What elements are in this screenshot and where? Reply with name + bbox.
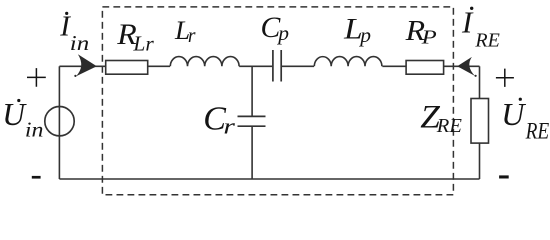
wire bottom (59, 178, 479, 180)
label U_RE (501, 96, 549, 143)
label L_p (343, 13, 371, 47)
minus sign left (32, 176, 41, 179)
svg-text:P: P (420, 27, 436, 48)
wire left vertical (58, 66, 60, 179)
wire R_Lr to L_r (148, 65, 170, 67)
label L_r (174, 15, 196, 47)
current arrow I_RE (457, 57, 477, 77)
wire right vertical top (479, 66, 481, 98)
wire L_p to R_P (382, 65, 406, 67)
svg-text:r: r (188, 26, 196, 47)
wire C_r to bottom (251, 127, 253, 179)
inductor L_r (170, 57, 239, 67)
svg-text:r: r (223, 114, 235, 139)
label C_r (203, 100, 235, 138)
plus sign left (27, 68, 46, 87)
resistor R_P (406, 61, 444, 75)
svg-text:in: in (70, 31, 89, 55)
svg-text:p: p (276, 21, 289, 45)
label U_in (2, 97, 43, 141)
impedance Z_RE (471, 99, 489, 144)
svg-text:U: U (501, 96, 526, 132)
label R_Lr (116, 19, 154, 56)
inductor L_p (314, 57, 382, 67)
svg-text:Lr: Lr (132, 32, 154, 56)
plus sign right (496, 69, 514, 87)
label C_p (261, 11, 290, 45)
wire R_P to right corner (444, 65, 480, 67)
svg-text:U: U (2, 97, 27, 132)
capacitor C_r (238, 116, 266, 126)
label R_P (404, 16, 436, 48)
resistor R_Lr (106, 61, 148, 75)
svg-text:p: p (358, 23, 371, 47)
svg-text:RE: RE (474, 29, 499, 51)
svg-text:RE: RE (525, 119, 549, 144)
label I_in (59, 11, 89, 55)
wire right vertical bottom (479, 143, 481, 179)
svg-text:in: in (25, 117, 44, 141)
label I_RE (461, 5, 500, 52)
svg-text:RE: RE (436, 115, 463, 137)
dashed box (network boundary) (102, 7, 453, 195)
capacitor C_p (273, 50, 281, 82)
voltage source U_in (45, 107, 74, 136)
wire top left (59, 65, 105, 67)
wire L_r to node A (239, 65, 272, 67)
minus sign right (499, 175, 509, 178)
current arrow I_in (74, 54, 97, 77)
label Z_RE (420, 99, 462, 137)
wire node A down to C_r (251, 66, 253, 115)
wire C_p to L_p (282, 65, 314, 67)
